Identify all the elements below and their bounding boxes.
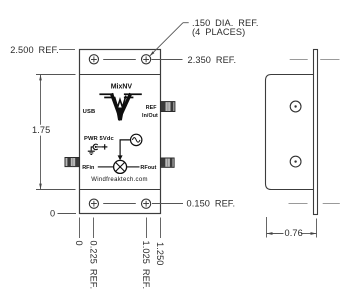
svg-text:1.75: 1.75 <box>32 125 50 135</box>
svg-text:(4 PLACES): (4 PLACES) <box>192 27 245 37</box>
svg-text:In/Out: In/Out <box>142 113 158 119</box>
svg-text:USB: USB <box>83 109 96 115</box>
svg-text:0.150 REF.: 0.150 REF. <box>187 198 236 208</box>
svg-text:MixNV: MixNV <box>111 84 133 91</box>
svg-text:2.350 REF.: 2.350 REF. <box>188 55 237 65</box>
svg-text:2.500 REF.: 2.500 REF. <box>10 45 59 55</box>
svg-text:0.76: 0.76 <box>285 228 303 238</box>
svg-text:0: 0 <box>74 241 84 246</box>
svg-text:REF: REF <box>146 105 158 111</box>
svg-text:0.225 REF.: 0.225 REF. <box>89 241 99 289</box>
svg-text:RFin: RFin <box>82 165 95 171</box>
svg-text:1.025 REF.: 1.025 REF. <box>141 241 151 289</box>
svg-text:1.250: 1.250 <box>155 242 165 266</box>
svg-text:PWR 5Vdc: PWR 5Vdc <box>84 136 114 142</box>
svg-text:RFout: RFout <box>140 165 156 171</box>
svg-text:0: 0 <box>50 208 55 218</box>
svg-text:Windfreaktech.com: Windfreaktech.com <box>91 177 147 183</box>
